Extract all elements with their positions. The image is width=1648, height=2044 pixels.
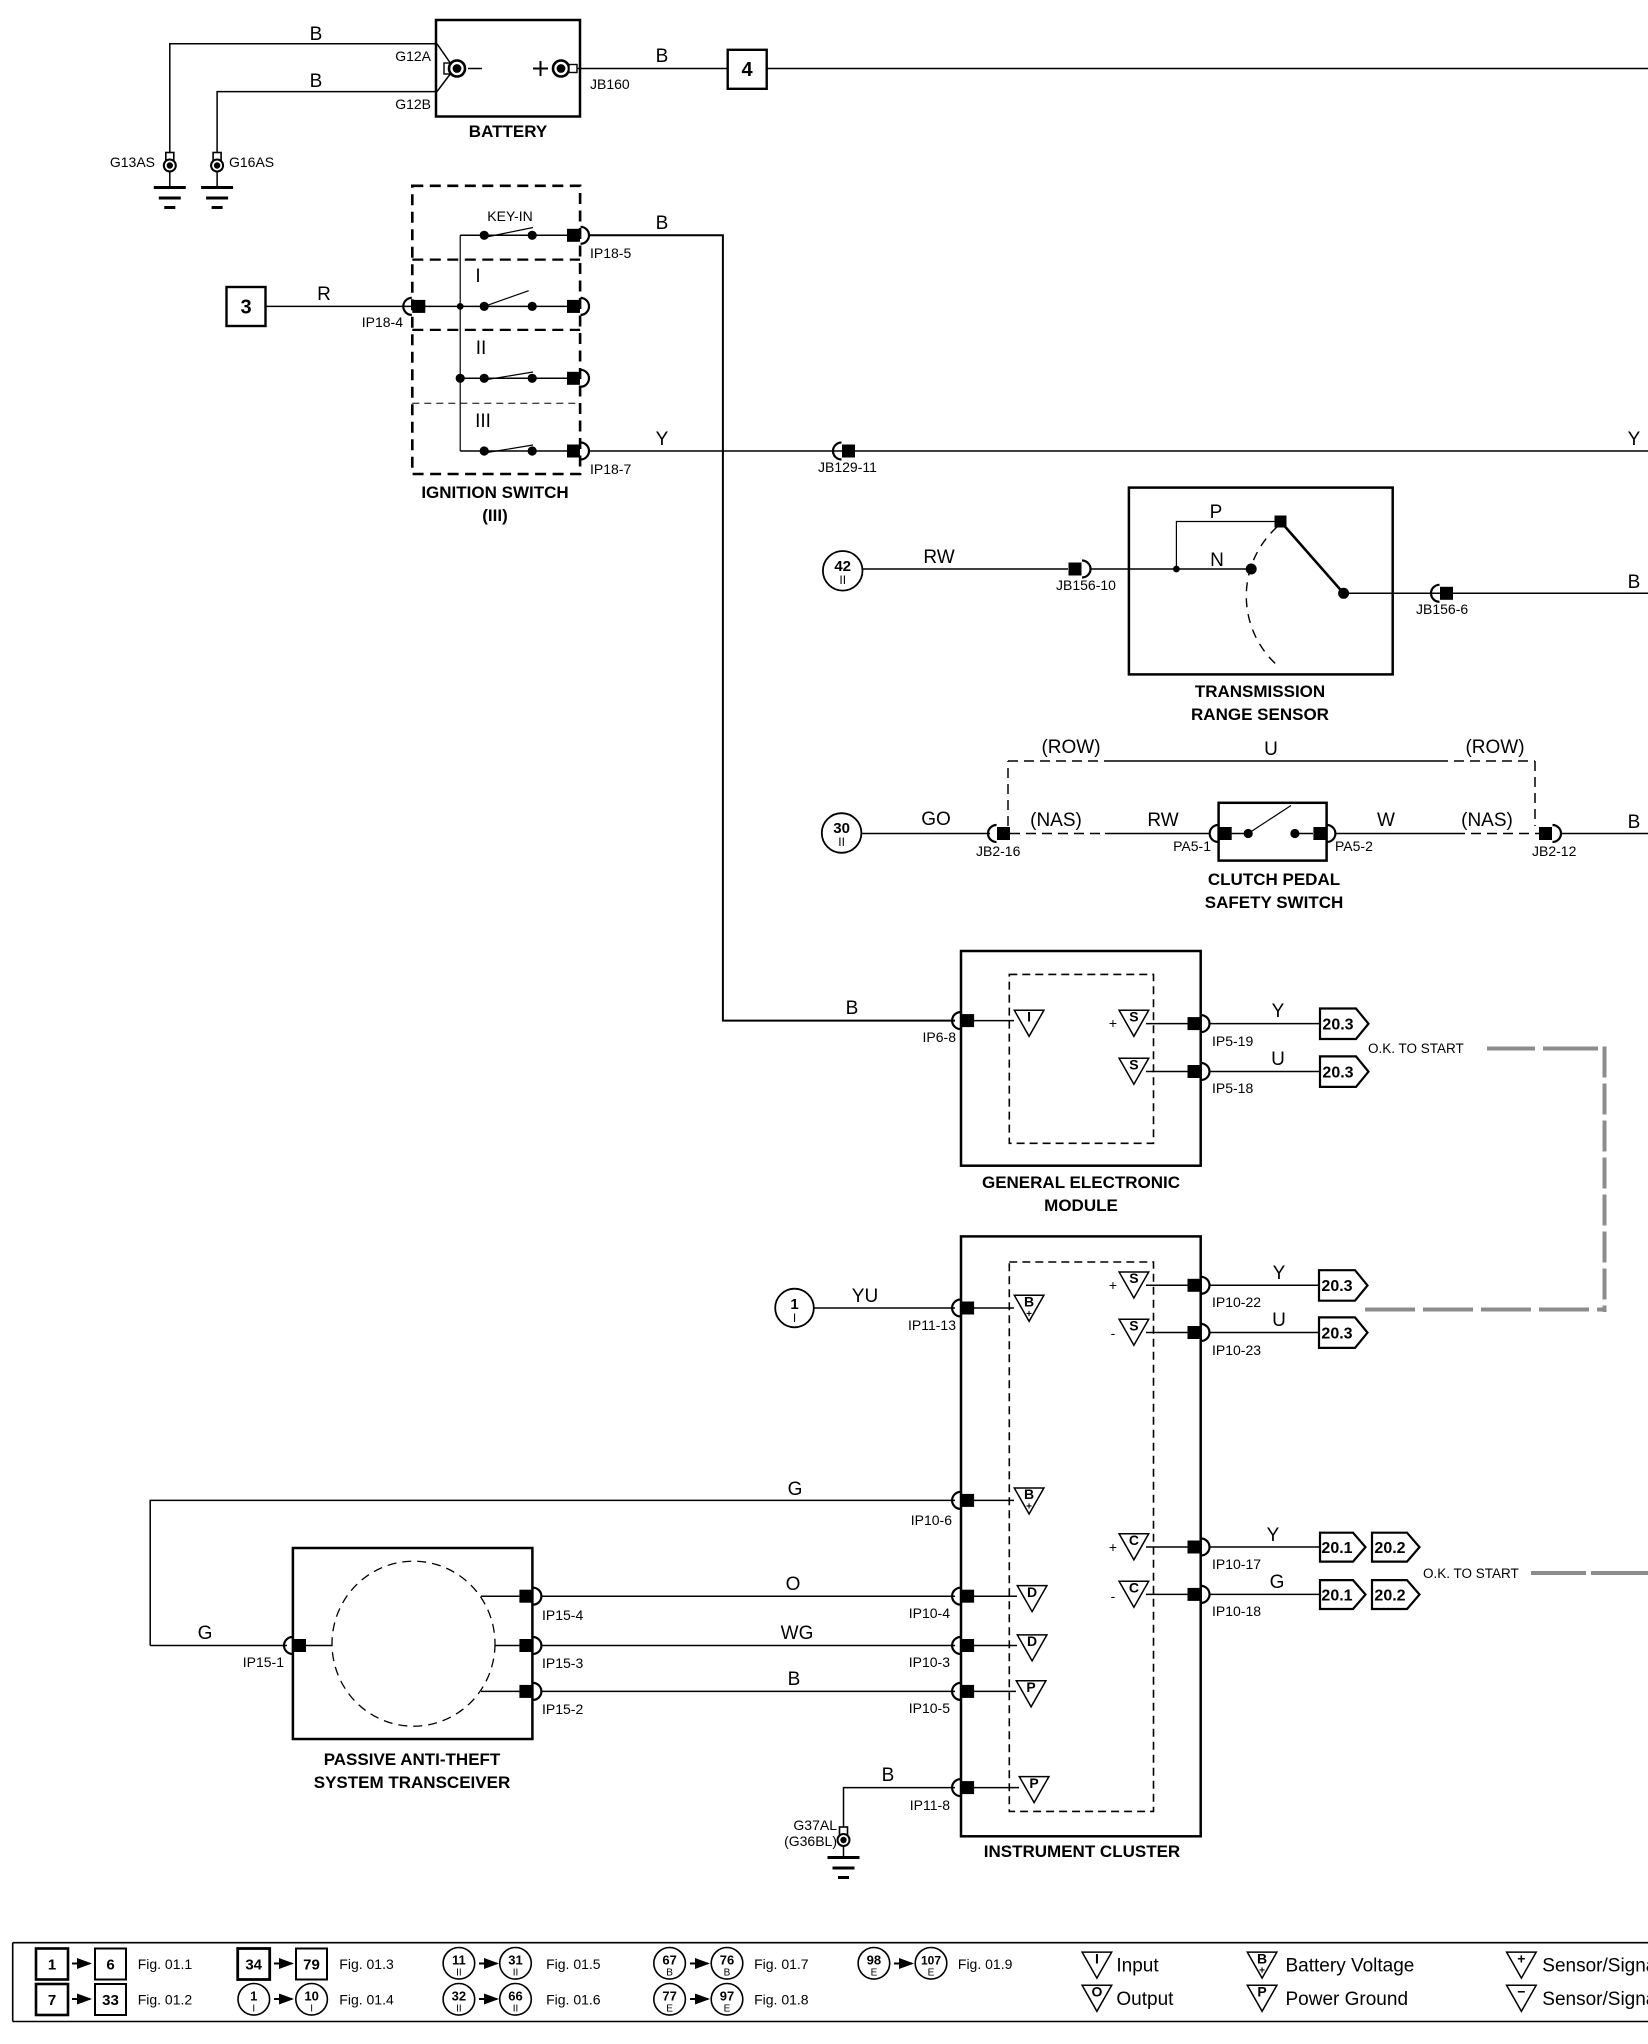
legend circle 97-E — [711, 1984, 743, 2016]
legend battery voltage symbol B — [1247, 1950, 1277, 1978]
ignition switch KEY-IN contacts and blade — [460, 228, 579, 242]
legend input symbol I — [1082, 1950, 1112, 1978]
connector IP10-23 — [1188, 1324, 1210, 1341]
connector IP10-6 — [952, 1492, 974, 1509]
GEM wire S- to IP5-18 — [1146, 1071, 1188, 1073]
svg-text:Battery Voltage: Battery Voltage — [1286, 1956, 1415, 1977]
svg-text:33: 33 — [102, 1992, 119, 2009]
passive anti-theft transceiver box — [293, 1548, 533, 1739]
svg-text:IP10-3: IP10-3 — [909, 1654, 950, 1670]
svg-text:Y: Y — [656, 429, 669, 450]
wire NAS dashed from JB2-16 to clutch switch — [1010, 833, 1210, 835]
svg-text:B: B — [656, 46, 669, 67]
wire G vertical-to-IP15-1 segment — [150, 1645, 287, 1647]
svg-text:KEY-IN: KEY-IN — [487, 208, 532, 224]
svg-text:P: P — [1029, 1775, 1038, 1791]
cluster battery voltage symbol B+ (second) — [1014, 1486, 1044, 1514]
legend box — [13, 1943, 1648, 2022]
svg-text:I: I — [252, 2004, 255, 2015]
svg-text:20.3: 20.3 — [1322, 1017, 1353, 1034]
svg-text:U: U — [1271, 1049, 1285, 1070]
ground G16AS — [201, 153, 233, 208]
off-page pointer 20.3 (GEM Y) — [1320, 1009, 1369, 1040]
svg-text:B: B — [882, 1765, 895, 1786]
svg-text:BATTERY: BATTERY — [469, 122, 548, 141]
svg-text:IP10-6: IP10-6 — [911, 1512, 952, 1528]
svg-text:66: 66 — [508, 1989, 522, 2004]
svg-text:G12B: G12B — [395, 96, 431, 112]
wire GO from circle 30 to JB2-16 — [861, 833, 990, 835]
svg-text:Y: Y — [1628, 429, 1641, 450]
ignition switch dashed box — [412, 186, 580, 474]
svg-text:Y: Y — [1273, 1263, 1286, 1284]
svg-text:I: I — [1027, 1009, 1031, 1025]
wire B from battery to connector 4 — [577, 68, 728, 70]
wire U from IP5-18 to 20.3 — [1210, 1071, 1321, 1073]
svg-text:77: 77 — [662, 1989, 676, 2004]
clutch pedal safety switch box — [1219, 803, 1327, 861]
svg-text:O.K. TO START: O.K. TO START — [1368, 1041, 1464, 1056]
svg-text:Fig. 01.4: Fig. 01.4 — [339, 1992, 394, 2008]
splice JB2-16 — [988, 825, 1010, 842]
svg-text:S: S — [1129, 1009, 1138, 1025]
ignition switch row III contacts and blade — [460, 445, 579, 457]
svg-text:31: 31 — [508, 1953, 522, 1968]
svg-text:Fig. 01.2: Fig. 01.2 — [138, 1992, 193, 2008]
svg-text:20.3: 20.3 — [1321, 1325, 1352, 1342]
svg-text:S: S — [1129, 1317, 1138, 1333]
svg-text:W: W — [1377, 810, 1395, 831]
legend circle 1-I — [238, 1984, 270, 2016]
contact N — [1210, 550, 1257, 575]
svg-text:IP18-7: IP18-7 — [590, 461, 631, 477]
gray link bottom horizontal — [1365, 1308, 1606, 1312]
svg-text:C: C — [1129, 1579, 1139, 1595]
connector IP10-3 — [952, 1637, 974, 1654]
circuit reference circle 30-II — [822, 813, 862, 853]
wire O from PATS IP15-4 to IP10-4 — [541, 1595, 955, 1597]
svg-text:IP5-19: IP5-19 — [1212, 1033, 1253, 1049]
svg-text:3: 3 — [240, 297, 251, 319]
splice JB156-6 — [1431, 585, 1453, 602]
cluster wire C- to IP10-18 — [1146, 1593, 1188, 1595]
cluster data symbol D (first) — [1017, 1584, 1047, 1612]
wire B from connector 4 to right edge — [767, 68, 1648, 70]
svg-text:INSTRUMENT CLUSTER: INSTRUMENT CLUSTER — [984, 1842, 1180, 1861]
PATS wire coil to IP15-3 — [495, 1645, 520, 1647]
legend circle 98-E — [858, 1948, 890, 1980]
off-page pointer 20.1 (Y) — [1320, 1533, 1366, 1562]
wire Y from IP18-7 to right edge — [589, 450, 1648, 452]
off-page pointer 20.1 (G) — [1320, 1580, 1366, 1609]
svg-text:Sensor/Signal: Sensor/Signal — [1542, 1956, 1648, 1977]
ignition switch section divider III — [412, 402, 580, 404]
ignition switch common vertical wire — [459, 235, 461, 451]
PATS dashed coil circle — [332, 1561, 495, 1726]
svg-text:JB129-11: JB129-11 — [818, 459, 877, 475]
svg-text:II: II — [476, 338, 487, 359]
wire U from IP10-23 to 20.3 — [1210, 1332, 1320, 1334]
svg-text:E: E — [928, 1968, 935, 1979]
GEM input wire to I triangle — [974, 1020, 1014, 1022]
svg-text:G: G — [1270, 1572, 1285, 1593]
PATS wire coil to IP15-2 — [481, 1690, 520, 1692]
svg-text:32: 32 — [452, 1989, 466, 2004]
legend arrow 1-6 — [72, 1963, 90, 1965]
legend circle 32-II — [443, 1984, 475, 2016]
cluster wire IP10-5 to P triangle — [974, 1690, 1016, 1692]
wire B from PATS IP15-2 to IP10-5 — [541, 1690, 955, 1692]
svg-text:IP10-18: IP10-18 — [1212, 1603, 1261, 1619]
off-page pointer 20.3 (cluster U) — [1319, 1317, 1368, 1348]
svg-text:-: - — [1111, 1325, 1116, 1341]
off-page connector 3 — [227, 287, 266, 326]
svg-text:B: B — [310, 24, 323, 45]
ROW bypass dashed riser left — [1007, 761, 1009, 826]
wire Y from IP5-19 to 20.3 — [1210, 1023, 1321, 1025]
svg-text:IGNITION SWITCH: IGNITION SWITCH — [421, 483, 568, 502]
legend connector square 34 — [238, 1949, 270, 1980]
svg-text:11: 11 — [452, 1953, 466, 1968]
svg-text:Sensor/Signal: Sensor/Signal — [1542, 1989, 1648, 2010]
wire from blade pivot to JB156-6 — [1344, 592, 1440, 594]
wire R from connector 3 to IP18-4 — [266, 305, 413, 307]
legend connector square 7 — [36, 1984, 68, 2015]
battery negative terminal — [444, 61, 482, 77]
svg-text:IP10-5: IP10-5 — [909, 1700, 950, 1716]
svg-text:D: D — [1027, 1584, 1037, 1600]
svg-text:P: P — [1026, 1679, 1035, 1695]
off-page pointer 20.3 (cluster Y) — [1319, 1270, 1368, 1301]
svg-text:B: B — [846, 998, 859, 1019]
legend arrow 11-31 — [479, 1963, 497, 1965]
svg-text:+: + — [1026, 1309, 1032, 1320]
splice JB156-10 — [1069, 561, 1091, 578]
circuit reference circle 1-I — [775, 1289, 814, 1328]
ignition switch row I contacts and blade — [425, 291, 580, 313]
svg-text:II: II — [513, 1968, 519, 1979]
svg-text:IP15-2: IP15-2 — [542, 1701, 583, 1717]
svg-text:B: B — [656, 213, 669, 234]
svg-text:I: I — [310, 2004, 313, 2015]
svg-text:IP18-5: IP18-5 — [590, 245, 631, 261]
svg-text:RW: RW — [1147, 810, 1178, 831]
legend output symbol O — [1082, 1984, 1112, 2012]
connector IP11-13 — [952, 1300, 974, 1317]
wire WG from PATS IP15-3 to IP10-3 — [541, 1645, 955, 1647]
svg-text:III: III — [475, 411, 491, 432]
off-page pointer 20.2 (G) — [1372, 1580, 1420, 1609]
svg-text:II: II — [513, 2004, 519, 2015]
svg-text:G37AL: G37AL — [793, 1817, 837, 1833]
svg-text:B: B — [1024, 1294, 1034, 1310]
svg-text:Y: Y — [1272, 1001, 1285, 1022]
svg-text:−: − — [1517, 1984, 1525, 2000]
cluster data symbol D (second) — [1017, 1633, 1047, 1661]
svg-text:PA5-1: PA5-1 — [1173, 838, 1211, 854]
GEM inner dashed box — [1009, 974, 1153, 1143]
ROW bypass dashed riser right — [1534, 761, 1536, 826]
legend arrow c1-c10 — [274, 1998, 292, 2000]
svg-text:C: C — [1129, 1532, 1139, 1548]
svg-text:20.2: 20.2 — [1374, 1587, 1405, 1604]
svg-text:(NAS): (NAS) — [1030, 810, 1082, 831]
connector IP15-2 — [519, 1683, 541, 1700]
svg-text:B: B — [788, 1669, 801, 1690]
svg-text:(ROW): (ROW) — [1041, 737, 1100, 758]
legend connector square 6 — [95, 1949, 126, 1980]
GEM sensor signal - symbol S — [1119, 1056, 1149, 1084]
legend circle 77-E — [654, 1984, 686, 2016]
svg-text:S: S — [1129, 1056, 1138, 1072]
circuit reference circle 42-II — [823, 551, 863, 591]
svg-text:+: + — [1109, 1015, 1117, 1031]
legend connector square 79 — [296, 1949, 327, 1980]
wire B from ground G13AS to battery G12A — [170, 44, 451, 168]
cluster power ground symbol P (second) — [1019, 1775, 1049, 1803]
legend arrow 34-79 — [274, 1963, 292, 1965]
connector IP5-18 — [1188, 1063, 1210, 1080]
svg-text:O.K. TO START: O.K. TO START — [1423, 1566, 1519, 1581]
svg-text:Fig. 01.8: Fig. 01.8 — [754, 1992, 809, 2008]
svg-text:O: O — [1091, 1984, 1102, 2000]
wire B from JB156-6 to right edge — [1453, 592, 1648, 594]
svg-text:IP5-18: IP5-18 — [1212, 1080, 1253, 1096]
cluster sensor - symbol S — [1111, 1317, 1149, 1345]
wire YU from circle 1 to IP11-13 — [814, 1307, 955, 1309]
legend arrow 67-76 — [690, 1963, 708, 1965]
connector IP10-4 — [952, 1588, 974, 1605]
PATS wire coil to IP15-4 — [481, 1595, 520, 1597]
connector row I arc — [567, 298, 589, 315]
legend sensor signal - symbol — [1507, 1984, 1537, 2012]
svg-text:I: I — [1095, 1950, 1099, 1966]
svg-text:G12A: G12A — [395, 48, 431, 64]
cluster coil + symbol C — [1109, 1532, 1149, 1560]
svg-text:I: I — [475, 266, 480, 287]
wire B from G37AL ground to IP11-8 — [844, 1788, 956, 1828]
GEM input symbol I — [1014, 1009, 1044, 1037]
svg-text:B: B — [1628, 572, 1641, 593]
ground G37AL — [828, 1827, 860, 1878]
svg-text:Fig. 01.3: Fig. 01.3 — [339, 1956, 394, 1972]
cluster battery voltage symbol B+ (top) — [1014, 1294, 1044, 1322]
svg-text:76: 76 — [720, 1953, 734, 1968]
svg-text:I: I — [793, 1311, 796, 1325]
legend circle 67-B — [654, 1948, 686, 1980]
svg-text:B: B — [666, 1968, 673, 1979]
off-page pointer 20.3 (GEM U) — [1320, 1056, 1369, 1087]
connector IP15-3 — [519, 1637, 541, 1654]
svg-text:(NAS): (NAS) — [1461, 810, 1513, 831]
legend arrow 32-66 — [479, 1998, 497, 2000]
cluster power ground symbol P (first) — [1016, 1679, 1046, 1707]
svg-text:98: 98 — [867, 1953, 881, 1968]
svg-text:II: II — [456, 1968, 462, 1979]
splice JB129-11 — [833, 443, 855, 460]
ignition switch section divider I — [412, 259, 580, 261]
legend connector square 1 — [36, 1949, 68, 1980]
svg-text:IP10-23: IP10-23 — [1212, 1342, 1261, 1358]
svg-text:WG: WG — [781, 1623, 814, 1644]
connector IP18-5 — [567, 227, 589, 244]
svg-text:G16AS: G16AS — [229, 154, 274, 170]
svg-text:II: II — [838, 835, 845, 849]
gray link line from GEM OK TO START — [1487, 1047, 1598, 1051]
svg-text:20.1: 20.1 — [1321, 1587, 1352, 1604]
cluster wire IP11-8 to P triangle — [974, 1787, 1019, 1789]
svg-text:B: B — [310, 71, 323, 92]
svg-text:IP10-22: IP10-22 — [1212, 1294, 1261, 1310]
connector IP18-4 — [403, 298, 425, 315]
connector IP15-1 — [284, 1637, 306, 1654]
connector row II arc — [567, 370, 589, 387]
svg-text:U: U — [1272, 1310, 1286, 1331]
connector IP15-4 — [519, 1588, 541, 1605]
svg-text:E: E — [871, 1968, 878, 1979]
sensor internal junction and P/N wires — [1173, 522, 1279, 573]
svg-text:B: B — [1024, 1486, 1034, 1502]
svg-text:IP18-4: IP18-4 — [362, 314, 403, 330]
svg-text:10: 10 — [304, 1989, 318, 2004]
cluster wire S+ to IP10-22 — [1146, 1284, 1188, 1286]
clutch switch contacts and blade — [1231, 806, 1313, 839]
connector IP10-18 — [1188, 1586, 1210, 1603]
legend circle 10-I — [296, 1984, 328, 2016]
svg-text:Output: Output — [1116, 1989, 1174, 2010]
gray link vertical right side — [1603, 1047, 1607, 1313]
svg-text:G: G — [198, 1623, 213, 1644]
connector PA5-1 — [1210, 825, 1232, 842]
legend arrow 98-107 — [894, 1963, 912, 1965]
svg-text:G: G — [788, 1479, 803, 1500]
svg-text:RW: RW — [923, 547, 954, 568]
svg-text:TRANSMISSION: TRANSMISSION — [1195, 682, 1325, 701]
svg-text:JB2-16: JB2-16 — [976, 843, 1021, 859]
svg-text:SYSTEM TRANSCEIVER: SYSTEM TRANSCEIVER — [314, 1773, 510, 1792]
wire B from JB2-12 to right edge — [1561, 833, 1648, 835]
battery positive terminal — [533, 61, 577, 77]
svg-text:IP11-13: IP11-13 — [908, 1317, 956, 1333]
cluster wire IP10-4 to D triangle — [974, 1595, 1017, 1597]
svg-text:PA5-2: PA5-2 — [1335, 838, 1373, 854]
svg-text:E: E — [666, 2004, 673, 2015]
legend circle 11-II — [443, 1948, 475, 1980]
svg-text:Fig. 01.6: Fig. 01.6 — [546, 1992, 601, 2008]
cluster wire IP10-6 to B+ triangle — [974, 1499, 1014, 1501]
svg-text:107: 107 — [921, 1954, 941, 1968]
svg-text:34: 34 — [245, 1957, 262, 1974]
svg-text:JB160: JB160 — [590, 76, 630, 92]
svg-text:Fig. 01.9: Fig. 01.9 — [958, 1956, 1013, 1972]
svg-text:1: 1 — [250, 1989, 257, 2004]
wire G from PATS to IP10-6 — [150, 1500, 955, 1645]
svg-text:79: 79 — [303, 1957, 320, 1974]
svg-text:O: O — [786, 1574, 801, 1595]
svg-text:+: + — [1109, 1277, 1117, 1293]
svg-text:+: + — [1517, 1950, 1525, 1966]
svg-text:JB156-10: JB156-10 — [1056, 577, 1116, 593]
wire W from PA5-2 to JB2-12 — [1335, 833, 1539, 835]
connector IP10-17 — [1188, 1539, 1210, 1556]
svg-text:97: 97 — [720, 1989, 734, 2004]
wire from JB156-10 into sensor — [1090, 568, 1176, 570]
svg-text:Fig. 01.1: Fig. 01.1 — [138, 1956, 193, 1972]
svg-text:GO: GO — [921, 809, 951, 830]
svg-text:Fig. 01.7: Fig. 01.7 — [754, 1956, 809, 1972]
legend circle 76-B — [711, 1948, 743, 1980]
legend power ground symbol P — [1247, 1984, 1277, 2012]
connector IP11-8 — [952, 1779, 974, 1796]
svg-text:MODULE: MODULE — [1044, 1196, 1118, 1215]
cluster sensor + symbol S — [1109, 1270, 1149, 1298]
svg-text:-: - — [1111, 1588, 1116, 1604]
connector IP10-5 — [952, 1683, 974, 1700]
svg-text:IP15-4: IP15-4 — [542, 1607, 583, 1623]
PATS wire IP15-1 to coil — [306, 1645, 332, 1647]
svg-text:B: B — [1257, 1950, 1267, 1966]
connector IP18-7 — [567, 443, 589, 460]
sensor rotary dashed arc — [1246, 527, 1278, 666]
svg-text:SAFETY SWITCH: SAFETY SWITCH — [1205, 893, 1344, 912]
GEM wire S+ to IP5-19 — [1146, 1023, 1188, 1025]
svg-text:U: U — [1264, 739, 1278, 760]
svg-text:G13AS: G13AS — [110, 154, 155, 170]
svg-text:IP10-4: IP10-4 — [909, 1605, 950, 1621]
wire Y from IP10-17 to 20.1 — [1210, 1546, 1321, 1548]
svg-text:+: + — [1109, 1539, 1117, 1555]
svg-text:N: N — [1210, 550, 1224, 571]
svg-text:(G36BL): (G36BL) — [784, 1833, 837, 1849]
svg-text:IP6-8: IP6-8 — [923, 1029, 957, 1045]
svg-text:IP15-3: IP15-3 — [542, 1655, 583, 1671]
svg-text:IP10-17: IP10-17 — [1212, 1556, 1261, 1572]
svg-text:IP11-8: IP11-8 — [910, 1797, 950, 1813]
svg-text:Fig. 01.5: Fig. 01.5 — [546, 1956, 601, 1972]
cluster wire C+ to IP10-17 — [1146, 1546, 1188, 1548]
svg-text:II: II — [839, 573, 846, 587]
wire RW from circle 42 to JB156-10 — [863, 568, 1069, 570]
svg-text:20.3: 20.3 — [1322, 1064, 1353, 1081]
wire B from IP18-5 down to GEM IP6-8 — [589, 235, 955, 1020]
svg-text:6: 6 — [106, 1957, 114, 1974]
svg-text:RANGE SENSOR: RANGE SENSOR — [1191, 705, 1329, 724]
legend arrow 7-33 — [72, 1998, 90, 2000]
contact P — [1210, 502, 1287, 528]
GEM sensor signal + symbol S — [1109, 1009, 1149, 1037]
wire G from IP10-18 to 20.1 — [1210, 1593, 1321, 1595]
svg-text:II: II — [456, 2004, 462, 2015]
svg-text:B: B — [724, 1968, 731, 1979]
ground G13AS — [154, 153, 186, 208]
ROW bypass top wire U — [1008, 760, 1535, 762]
gray link line from cluster OK TO START — [1531, 1571, 1648, 1575]
svg-text:1: 1 — [48, 1957, 56, 1974]
cluster wire IP10-3 to D triangle — [974, 1645, 1017, 1647]
instrument cluster box — [961, 1236, 1201, 1836]
svg-text:JB2-12: JB2-12 — [1532, 843, 1577, 859]
svg-text:IP15-1: IP15-1 — [243, 1654, 284, 1670]
legend circle 66-II — [500, 1984, 532, 2016]
instrument cluster inner dashed box — [1009, 1262, 1153, 1811]
connector PA5-2 — [1313, 825, 1335, 842]
svg-text:(ROW): (ROW) — [1465, 737, 1524, 758]
ignition switch section divider II — [412, 329, 580, 331]
legend sensor signal + symbol — [1507, 1950, 1537, 1978]
svg-text:4: 4 — [741, 59, 753, 81]
cluster wire S- to IP10-23 — [1146, 1332, 1188, 1334]
svg-text:Input: Input — [1116, 1956, 1159, 1977]
